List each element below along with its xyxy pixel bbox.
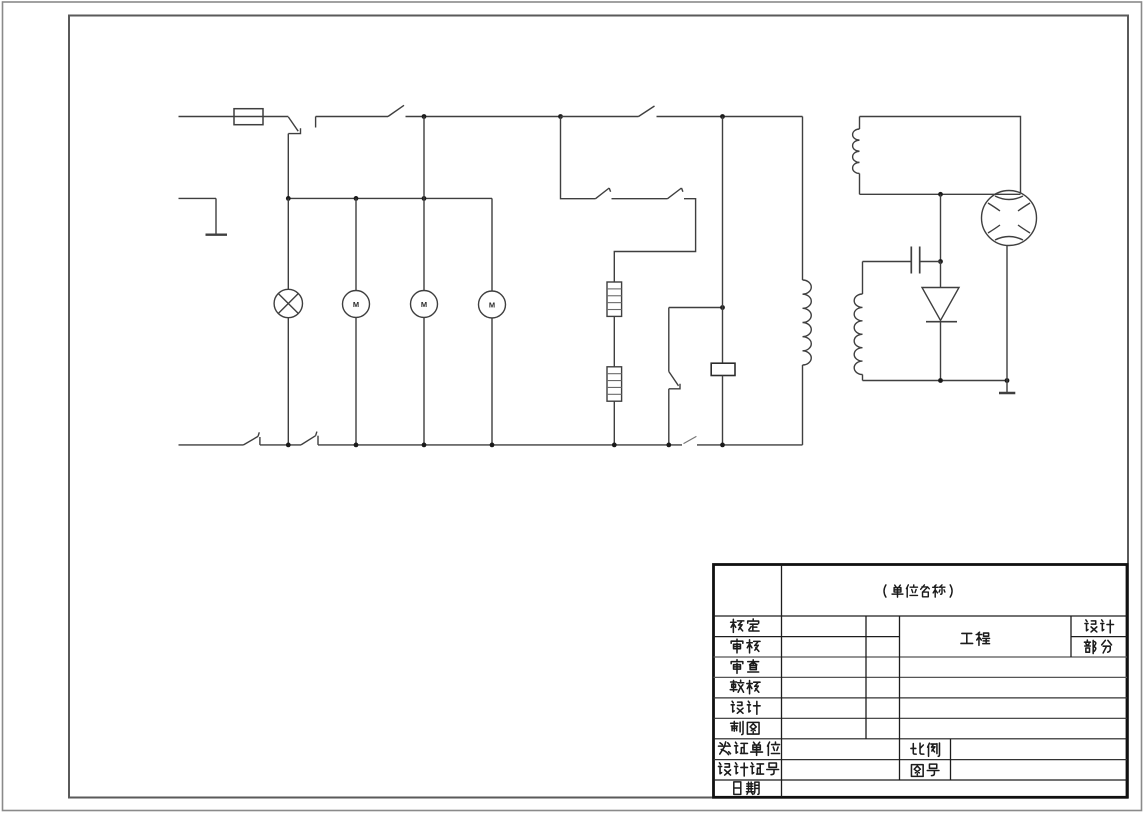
contact K4 (bottom bus) [684, 436, 697, 443]
title block row lines [714, 637, 1128, 780]
fuse FU1 [234, 109, 263, 125]
ground stub top-left [179, 198, 228, 234]
node A junction [422, 114, 427, 119]
label (unit name) [884, 585, 952, 597]
junction bottom-M2 [422, 443, 427, 448]
switch S3 (bottom bus) [244, 432, 260, 445]
title block column lines [782, 565, 1128, 798]
electron tube V1 [982, 191, 1037, 246]
resistor R2 [607, 367, 622, 401]
label tu-hao (dwg no) [911, 764, 938, 776]
junction diode-bottom [938, 378, 943, 383]
mid bus wire [288, 197, 492, 199]
label bu-fen (part) [1084, 640, 1111, 654]
wire breaker down to mid bus [287, 134, 289, 199]
bottom bus left segment [179, 444, 244, 446]
motor M3 [479, 198, 506, 445]
label shen-he [731, 639, 760, 653]
label she-ji [731, 701, 760, 714]
title block header line [714, 615, 1128, 617]
junction relay top [720, 305, 725, 310]
label bi-li (scale) [911, 743, 940, 756]
switch S2 (top bus) [561, 106, 655, 117]
wire R2 to bottom bus [613, 401, 615, 445]
motor M1 [343, 198, 370, 445]
junction bottom-relay [720, 443, 725, 448]
inductor L2 (top right) [853, 117, 860, 195]
diode VD1 [922, 262, 959, 381]
wire node B down to contact row [561, 117, 596, 199]
lamp HL1 [274, 198, 302, 445]
wire node C down to relay [722, 117, 724, 364]
wire between contacts [612, 198, 668, 200]
svg-text:M: M [353, 300, 359, 309]
label shen-cha [731, 660, 759, 674]
junction bottom-R2 [612, 443, 617, 448]
inductor L1 (line to bottom bus right) [803, 117, 812, 445]
wire R1 to R2 [613, 316, 615, 366]
junction loop-cap [938, 192, 943, 197]
node B junction [558, 114, 563, 119]
label fa-zheng-dan-wei [718, 742, 779, 756]
wire contact row to resistor branch [614, 199, 695, 282]
resistor R1 [607, 282, 622, 316]
switch S1 (top bus) [316, 105, 404, 127]
wire relay to bottom bus [722, 376, 724, 445]
junction bottom-M3 [490, 443, 495, 448]
bottom bus main segment [318, 444, 682, 446]
inductor L3 (secondary) [854, 262, 862, 381]
label ri-qi [734, 782, 759, 794]
wire tube to bottom [1006, 246, 1008, 381]
wire top bus right segment [657, 116, 803, 118]
right block bottom wire [863, 380, 1008, 382]
switch S4 (bottom bus) [301, 432, 318, 445]
wire loop bottom [860, 193, 1021, 195]
title block outer frame [714, 565, 1128, 798]
junction mid-lamp [286, 196, 291, 201]
label zhi-tu [731, 721, 759, 734]
wire down to capacitor node [940, 194, 942, 261]
bottom bus right segment [697, 444, 803, 446]
label she-ji-zheng-hao [718, 763, 778, 776]
capacitor C1 [863, 247, 941, 274]
svg-text:M: M [489, 301, 495, 310]
wire relay branch horizontal [669, 307, 723, 309]
relay coil KM1 [711, 363, 735, 375]
junction bottom-M1 [354, 443, 359, 448]
wire top-right loop [860, 117, 1021, 194]
wire fuse to breaker [263, 116, 288, 118]
contact K1 (mid row) [596, 188, 611, 199]
ground G2 [999, 381, 1015, 394]
junction bottom-lamp [286, 443, 291, 448]
wire contact branch down [668, 308, 670, 372]
bottom bus segment [260, 444, 301, 446]
label she-ji (design) [1085, 620, 1114, 633]
label gong-cheng (project) [961, 632, 990, 645]
svg-text:M: M [421, 300, 427, 309]
contact K3 (vertical) [669, 372, 680, 389]
junction mid-M2 [422, 196, 427, 201]
motor M2 [411, 117, 438, 445]
node C junction [720, 114, 725, 119]
contact K2 (mid row) [668, 188, 683, 199]
junction mid-M1 [354, 196, 359, 201]
wire K3 to bottom bus [668, 389, 670, 445]
junction tube-bottom [1005, 378, 1010, 383]
junction bottom-K3 [666, 443, 671, 448]
breaker contact QF1 (vertical) [288, 117, 300, 134]
label jiao-he [730, 680, 760, 694]
junction cap node [938, 259, 943, 264]
wire top bus left segment [179, 116, 235, 118]
label he-ding [731, 619, 759, 633]
wire top bus to node A [406, 116, 561, 118]
